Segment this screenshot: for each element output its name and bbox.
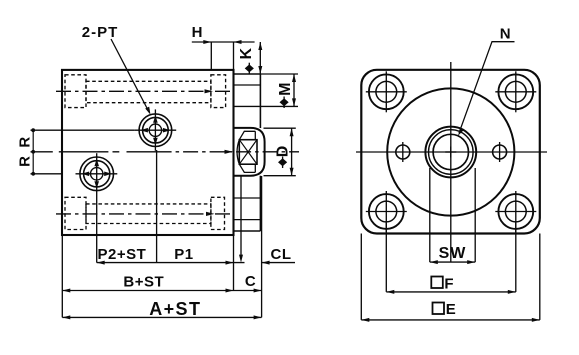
svg-text:P1: P1 (174, 246, 193, 263)
svg-text:SW: SW (439, 245, 467, 262)
svg-text:F: F (444, 275, 454, 292)
svg-text:R: R (17, 156, 34, 167)
svg-text:R: R (17, 136, 34, 147)
svg-text:E: E (446, 301, 457, 318)
svg-text:N: N (500, 25, 511, 42)
svg-text:2-PT: 2-PT (82, 24, 119, 41)
svg-text:C: C (245, 273, 256, 290)
svg-text:A+ST: A+ST (149, 299, 201, 319)
svg-text:CL: CL (271, 246, 292, 263)
svg-text:B+ST: B+ST (123, 273, 164, 290)
svg-text:D: D (275, 145, 292, 157)
svg-text:M: M (277, 82, 294, 96)
svg-text:H: H (192, 24, 203, 41)
svg-text:K: K (238, 47, 255, 59)
svg-text:P2+ST: P2+ST (98, 246, 147, 263)
